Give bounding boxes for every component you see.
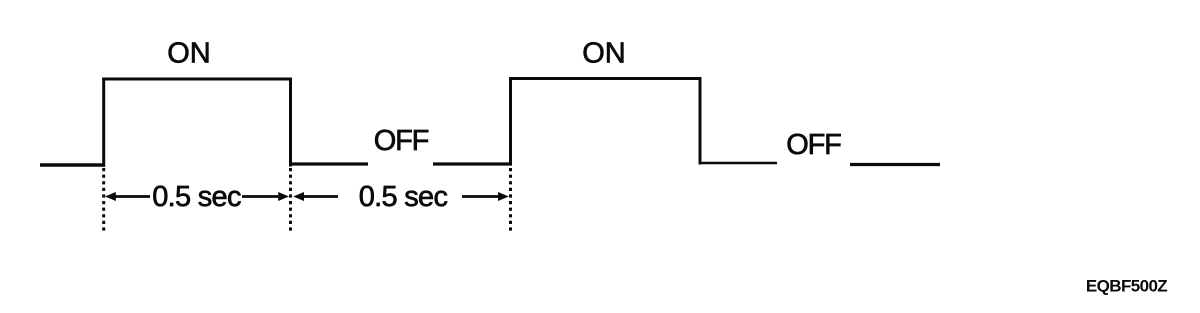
wire rising edge of pulse 2	[509, 77, 512, 166]
dimension arrow left shaft, interval 2	[302, 195, 338, 198]
wire low segment after pulse 1	[291, 162, 369, 165]
wire rising edge of pulse 1	[102, 78, 105, 167]
svg-text:OFF: OFF	[374, 125, 429, 157]
wire falling edge of pulse 2	[699, 77, 702, 165]
svg-text:OFF: OFF	[786, 129, 841, 161]
wire low segment after pulse 2	[700, 162, 777, 165]
dimension arrow right head, interval 2	[498, 192, 509, 201]
dimension arrow right shaft, interval 2	[462, 195, 498, 198]
node marker dotted line at pulse 1 fall (t=0.5s)	[289, 168, 292, 233]
wire baseline segment 1 (low level before first pulse)	[40, 163, 105, 166]
svg-text:0.5 sec: 0.5 sec	[359, 181, 448, 213]
node marker dotted line at pulse 2 rise (t=1.0s)	[509, 168, 512, 233]
dimension arrow left head, interval 2	[293, 192, 304, 201]
wire falling edge of pulse 1	[289, 78, 292, 167]
wire top segment of pulse 1 (ON level)	[102, 78, 292, 81]
svg-text:ON: ON	[582, 38, 626, 70]
svg-text:ON: ON	[167, 38, 211, 70]
wire top segment of pulse 2 (ON level)	[509, 77, 702, 80]
dimension arrow left shaft, interval 1	[114, 195, 150, 198]
svg-text:0.5 sec: 0.5 sec	[152, 181, 241, 213]
wire trailing low segment after OFF label	[850, 163, 940, 166]
dimension arrow right shaft, interval 1	[242, 195, 280, 198]
dimension arrow right head, interval 1	[278, 192, 289, 201]
dimension arrow left head, interval 1	[105, 192, 116, 201]
svg-text:EQBF500Z: EQBF500Z	[1086, 277, 1167, 296]
wire low segment before pulse 2	[433, 162, 512, 165]
node marker dotted line at pulse 1 rise (t=0)	[102, 168, 105, 233]
